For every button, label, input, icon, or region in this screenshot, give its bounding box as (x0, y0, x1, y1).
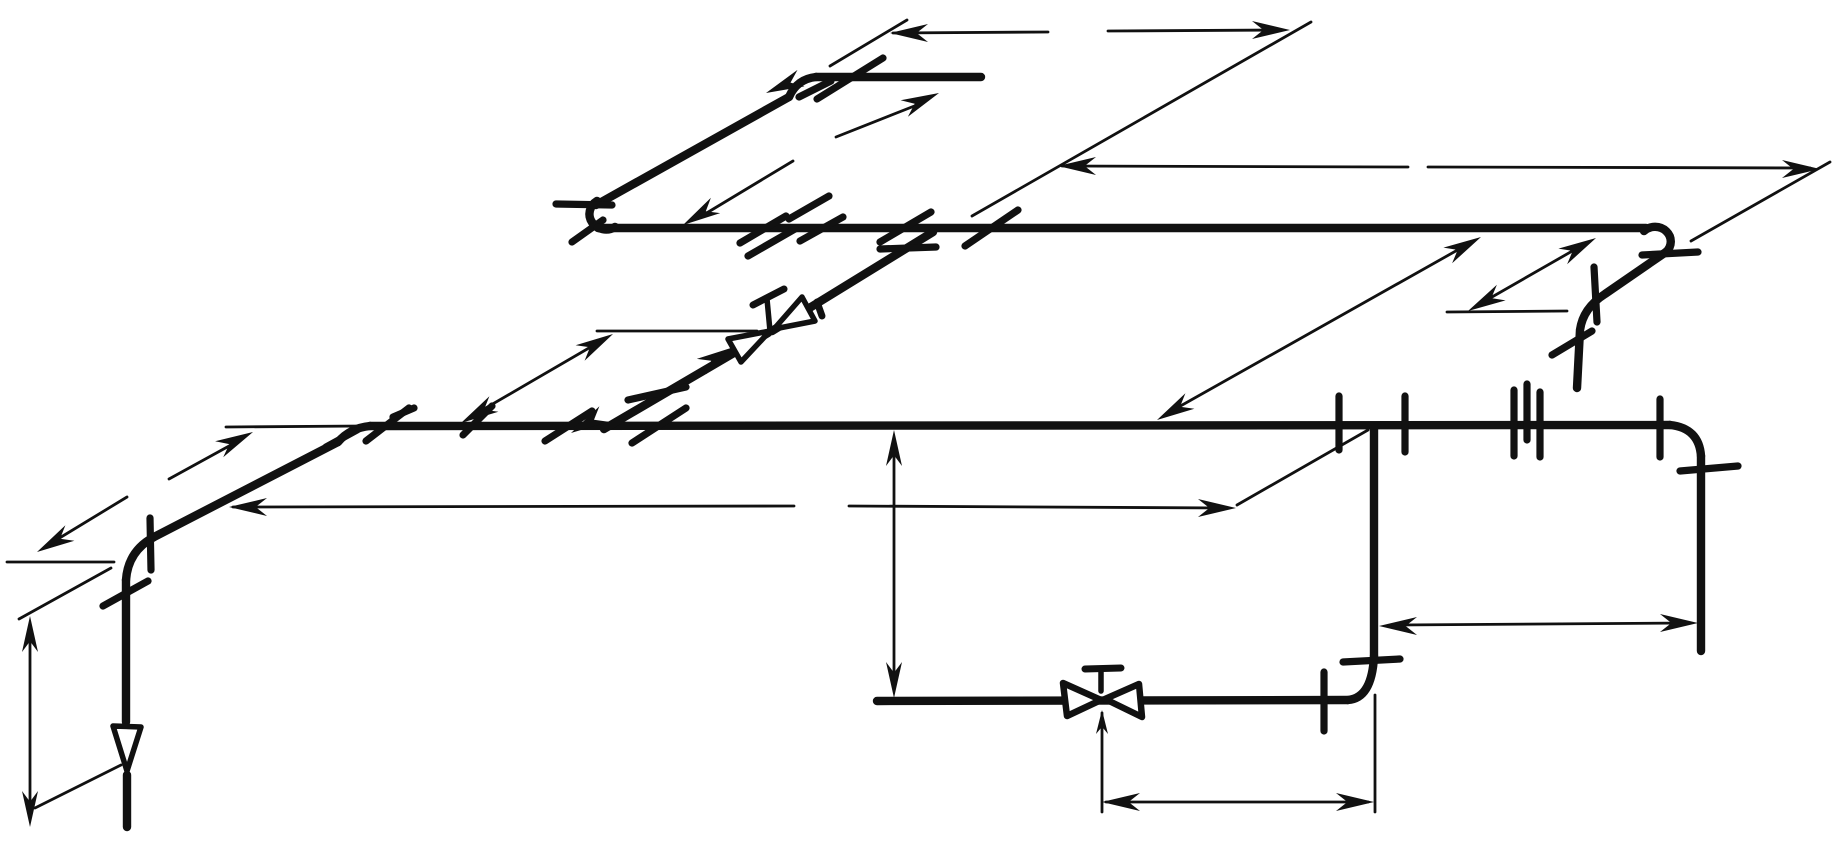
elbow at branch drop bottom (1348, 656, 1374, 700)
pipe run C (long upper horizontal) (598, 224, 1646, 232)
branch dim upper arrowhead (576, 334, 613, 361)
dim line A span (top) (893, 32, 1048, 33)
long dim line y506 (233, 506, 794, 507)
flow arrow (open) on riser (113, 726, 141, 771)
extension line from branch tee (30deg) (1237, 430, 1368, 505)
loop end of pipe C (hand-drawn curl) (1644, 227, 1671, 252)
valve V1 body right (on branch) (774, 297, 815, 329)
pipe B dim lower arrowhead (683, 198, 720, 225)
weld tick horizontal at pipe B curl (556, 204, 612, 205)
vertical dim line V1 (893, 444, 896, 688)
flange bar on branch drop pipe (1343, 659, 1400, 662)
flange bar on east drop pipe (1680, 466, 1738, 471)
dim line B span (1062, 166, 1408, 167)
pipe B dim upper arrowhead (901, 93, 939, 117)
vertical riser pipe (122, 580, 130, 722)
weld tick slash on riser (103, 581, 148, 606)
loop end of pipe B (hand-drawn curl) (589, 201, 615, 230)
valve V1 body left (on branch) (728, 331, 770, 362)
dim B left arrowhead (1058, 157, 1096, 175)
dim shaft along pipe B (upper) (836, 103, 922, 137)
dim line between drop pipes y624 (1396, 623, 1688, 625)
branch dim lower arrowhead (461, 396, 498, 423)
pipe F dim upper arrowhead (215, 432, 253, 457)
riser pipe end stub (123, 775, 131, 827)
V1 bottom arrowhead (886, 662, 902, 698)
weld tick slash 3b on pipe C (800, 217, 843, 241)
weld tick slash on pipe A (817, 58, 883, 99)
weld tick dash below pipe A elbow (799, 81, 831, 97)
pipe F dim lower arrowhead (37, 525, 74, 552)
extension line from pipe C east curl (30deg) (1691, 162, 1830, 241)
pipe run B (diagonal riser to pipe A) (596, 97, 789, 205)
flange tick 2 on main pipe (1401, 396, 1408, 452)
ink blob right of valve V1 (817, 302, 822, 316)
dim shaft along pipe F (lower) (48, 497, 127, 545)
branch drop pipe (vertical) (1370, 428, 1378, 656)
vertical dim line V2 (far left) (29, 631, 32, 816)
arrowhead at pipe A elbow (766, 70, 805, 93)
valve V2 handle bar (1085, 668, 1121, 669)
elbow to vertical riser (126, 537, 154, 580)
weld tick vertical on pipe D (1594, 267, 1597, 322)
extension line from pipe C tee (30deg long) (972, 22, 1311, 216)
bottom dim line y802 (1106, 801, 1368, 804)
flange set bar 1 (|||) (1510, 390, 1517, 456)
weld tick dash at main west elbow (393, 408, 414, 417)
weld tick slash on pipe D lower end (1552, 331, 1592, 355)
small arrowhead under valve V2 (1096, 710, 1108, 734)
elbow at main pipe west end (338, 426, 370, 442)
elbow at main pipe east end (1670, 425, 1701, 456)
y506 dim right arrowhead (1198, 499, 1236, 517)
y506 dim left arrowhead (229, 498, 267, 516)
weld tick on branch below valve (628, 387, 686, 400)
weld tick slash 4 on pipe C (tee) (880, 212, 931, 242)
extension line at riser elbow (horizontal) (7, 561, 114, 564)
pipe run E (main lower horizontal) (370, 425, 1670, 426)
dim shaft along pipe F (upper) (169, 440, 240, 479)
flange set bar 3 (|||) (1536, 392, 1543, 457)
weld tick vertical on bottom pipe (1320, 672, 1327, 731)
branch pipe G (diagonal riser to pipe C) (604, 232, 933, 429)
weld tick slash on main pipe (463, 406, 492, 435)
weld tick slash 2 on pipe C (748, 229, 795, 256)
weld tick vertical at riser elbow (150, 518, 151, 570)
dim shaft along pipe B (lower) (700, 161, 793, 217)
extension line y312 (1447, 311, 1567, 312)
V2 top arrowhead (22, 616, 38, 652)
y624 left arrowhead (1379, 617, 1417, 635)
V2 bottom arrowhead (22, 791, 38, 827)
D_R2 lower arrowhead (1468, 285, 1506, 311)
arrowhead to valve V1 along branch (697, 347, 734, 374)
flange tick 3 on main pipe (1656, 399, 1663, 457)
elbow at pipe A west end (789, 77, 816, 97)
flange bar at tee on pipe C (880, 247, 936, 249)
bottom dim right arrowhead (1336, 793, 1374, 811)
east drop pipe (1697, 456, 1705, 651)
D_R1 lower arrowhead (1157, 393, 1194, 420)
extension line at pipe A elbow (30deg) (830, 20, 907, 66)
weld tick slash 3 on pipe C (789, 196, 829, 219)
valve V2 body left (1063, 683, 1101, 716)
weld tick slash at branch base on main pipe (545, 411, 592, 441)
dim line B span right part (1428, 167, 1810, 168)
dim A right arrowhead (1252, 21, 1290, 39)
extension line below valve V2 (1101, 713, 1104, 812)
pipe run A (top horizontal) (816, 73, 981, 81)
y624 right arrowhead (1660, 614, 1698, 632)
valve V1 handle bar (753, 289, 784, 305)
dim shaft D_R1 (30deg) (1168, 243, 1470, 413)
V1 top arrowhead (886, 430, 902, 466)
extension to V2 top (30deg) (19, 568, 111, 619)
dim A left arrowhead (890, 24, 928, 42)
weld tick slash at main west elbow (366, 408, 409, 441)
pipe run D (steep drop from pipe C loop) (1577, 252, 1666, 388)
weld tick slash at main west elbow (below) (326, 430, 357, 447)
extension line from valve V1 (horizontal) (597, 330, 757, 333)
extension line at main west elbow (horizontal) (226, 426, 362, 427)
flange bar under pipe C curl (1642, 252, 1698, 255)
valve V1 stem (767, 299, 770, 331)
flange tick 1 on main pipe (1335, 396, 1342, 450)
D_R1 upper arrowhead (1443, 237, 1481, 263)
bottom dim left arrowhead (1102, 793, 1140, 811)
arrowhead at branch base (571, 406, 608, 433)
flange set bar 2 (|||) (1523, 384, 1530, 440)
weld tick slash 6 on pipe C (965, 210, 1018, 246)
valve V2 body right (1105, 684, 1142, 717)
dim B right arrowhead (1782, 160, 1820, 178)
dim shaft D_R2 (30deg short) (1478, 242, 1588, 305)
weld tick slash at pipe B curl (572, 220, 603, 242)
weld tick slash right of branch base (632, 408, 686, 443)
extension to V2 bottom (30deg) (35, 765, 121, 808)
weld tick slash 1 on pipe C (740, 216, 786, 243)
extension line below branch elbow (1374, 695, 1377, 812)
pipe run F (diagonal down to riser) (154, 442, 338, 537)
valve V2 stem (1098, 671, 1104, 691)
dim shaft along branch G (472, 341, 601, 416)
dim line A span right part (1108, 30, 1282, 31)
D_R2 upper arrowhead (1558, 238, 1596, 264)
long dim line y506 right part (849, 506, 1226, 508)
bottom pipe run H (877, 700, 1348, 701)
